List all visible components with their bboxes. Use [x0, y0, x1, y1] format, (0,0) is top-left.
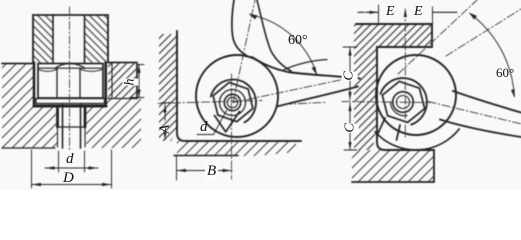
- floor hatched area: [177, 141, 296, 156]
- dimension d extension line right: [84, 151, 86, 172]
- nut facet line right: [79, 68, 81, 98]
- E extension line wall face: [378, 5, 380, 24]
- short horizontal centerline right: [284, 102, 327, 104]
- C extension tick bottom: [344, 149, 357, 151]
- stud thread end line: [58, 126, 86, 128]
- leader line for d: [197, 111, 227, 135]
- dimension D extension line left: [31, 150, 33, 188]
- second swing axis dash-dot: [446, 9, 521, 56]
- C dimension line lower: [349, 103, 351, 150]
- C extension tick top: [343, 46, 357, 48]
- dimension D line with arrows: [32, 184, 112, 186]
- label h left figure: [123, 79, 139, 86]
- jaw horn line: [284, 60, 328, 71]
- jaw slot wall right: [397, 125, 401, 140]
- E right tick: [433, 11, 457, 13]
- jaw cavity arc over nut: [380, 78, 427, 125]
- handle upper edge: [453, 91, 521, 113]
- hex nut: [382, 81, 424, 122]
- E extension line flange edge: [432, 7, 434, 24]
- jaw cavity arc over nut: [211, 79, 256, 122]
- base surface line right: [108, 62, 137, 64]
- label 60 right figure: [496, 65, 514, 81]
- label d left figure: [66, 151, 74, 168]
- dimension D extension line right: [111, 150, 113, 188]
- dimension A top tick: [162, 102, 173, 104]
- swing axis up dash-dot: [233, 0, 255, 103]
- sub-block inner edge: [111, 63, 113, 98]
- handle right-position upper edge: [252, 57, 360, 79]
- label C upper right figure: [342, 71, 358, 80]
- flange and wall hatched area: [354, 24, 432, 150]
- sub-block right edge: [136, 64, 138, 99]
- clearance hole wall right: [84, 15, 86, 63]
- floor top edge: [385, 149, 434, 151]
- wall hatched area: [159, 34, 177, 141]
- counterbore wall left: [33, 63, 36, 105]
- nut centre facet chamfer arc: [55, 64, 85, 69]
- stud chamfer circle: [227, 97, 237, 107]
- base hatched region right of hole: [86, 99, 141, 149]
- flange underside: [377, 46, 432, 48]
- hex nut: [213, 82, 253, 121]
- wall inner face and fillet and floor top: [177, 31, 301, 141]
- stud shank right edge: [80, 104, 82, 148]
- nut horizontal centerline: [342, 102, 430, 103]
- jaw slot wall left: [215, 116, 226, 132]
- floor bottom partial edge: [174, 155, 238, 157]
- counterbore bottom: [34, 105, 106, 108]
- stud hole wall right below counterbore: [84, 108, 87, 127]
- label d middle figure: [200, 119, 208, 136]
- swing envelope arc below head: [375, 129, 459, 150]
- floor bottom edge: [352, 181, 434, 183]
- dimension d line with outward arrows: [45, 167, 98, 169]
- handle axis dash-dot: [428, 102, 521, 124]
- handle lower edge: [440, 120, 521, 138]
- stud chamfer circle: [397, 96, 410, 109]
- swing axis up dash-dot: [398, 0, 477, 74]
- dimension A line: [164, 105, 166, 140]
- nut right facet chamfer arc: [80, 69, 103, 71]
- label A middle figure: [157, 125, 173, 134]
- nut horizontal centerline: [158, 101, 262, 104]
- label D left figure: [63, 170, 74, 187]
- E dimension left arrow line: [358, 11, 379, 13]
- label 60 middle figure: [288, 33, 308, 49]
- nut left facet chamfer arc: [38, 69, 57, 71]
- C dimension line upper: [349, 47, 351, 100]
- dimension h extension ticks: [130, 65, 144, 98]
- dimension h line: [138, 65, 140, 98]
- stud centerline: [69, 7, 71, 152]
- dimension B line: [177, 170, 233, 172]
- stud vertical centerline: [231, 74, 233, 179]
- base hatched region left strip: [2, 64, 57, 148]
- sub-block bottom edge: [108, 98, 137, 100]
- top clamped block hatched left column: [33, 15, 53, 63]
- flange right edge: [431, 24, 433, 47]
- flange top edge: [356, 23, 432, 25]
- stud hole wall left below counterbore: [56, 108, 59, 127]
- base surface line left: [2, 63, 33, 65]
- floor hatched area: [352, 150, 434, 182]
- stud circle: [393, 92, 414, 113]
- stud circle: [224, 94, 240, 110]
- label C lower right figure: [343, 123, 359, 132]
- sub-block dense hatch: [108, 63, 137, 99]
- label B middle figure: [205, 163, 218, 180]
- dimension B extension left: [176, 155, 178, 180]
- wall inner face with fillet: [377, 47, 385, 150]
- jaw slot wall right: [226, 112, 240, 132]
- clearance hole wall left: [52, 15, 54, 63]
- washer circle: [220, 90, 246, 116]
- top clamped block hatched right column: [85, 15, 109, 63]
- top block outline: [33, 15, 108, 63]
- counterbore wall right: [104, 63, 107, 105]
- washer arc: [391, 102, 408, 116]
- nut vertical centerline: [404, 9, 406, 138]
- wrench head big circle: [376, 55, 456, 135]
- handle axis dash-dot: [233, 79, 345, 103]
- nut facet line left: [56, 68, 58, 98]
- washer under nut: [36, 99, 105, 104]
- nut chamfer band line: [38, 67, 103, 69]
- stud shank left edge: [62, 104, 64, 148]
- swing arc 60 degrees: [250, 15, 317, 74]
- swing arc 60 degrees: [470, 13, 515, 96]
- wrench head big circle: [196, 55, 278, 137]
- handle up-position right edge: [257, 0, 291, 71]
- base bottom partial edge: [2, 147, 55, 149]
- nut outline: [38, 64, 103, 99]
- handle up-position left edge: [232, 0, 247, 56]
- label E E right figure: [386, 4, 395, 20]
- handle right-position lower edge: [277, 87, 358, 107]
- dimension d extension line left: [58, 151, 60, 172]
- jaw slot wall left: [378, 118, 385, 134]
- scan noise speckle: [0, 0, 521, 190]
- floor right edge: [433, 150, 435, 182]
